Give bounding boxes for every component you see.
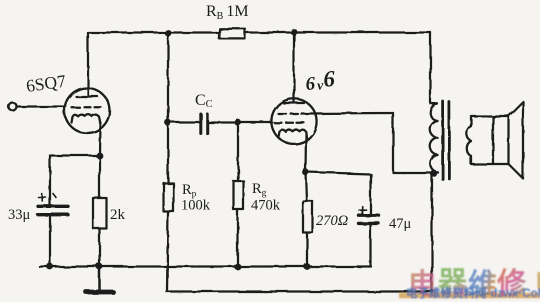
node R2 / ground rail: [96, 263, 103, 270]
wire: V2 screen lead: [310, 112, 394, 115]
node Rg / ground rail: [234, 263, 241, 270]
wire: lower B+ rail: [167, 290, 433, 292]
node top rail / V2 plate: [291, 29, 298, 36]
wire: C1 bottom lead: [49, 217, 51, 267]
svg-text:47μ: 47μ: [389, 216, 412, 232]
watermark: [399, 267, 540, 301]
resistor R4 Rg body: [234, 181, 244, 210]
resistor R5 270ohm body: [303, 201, 313, 233]
svg-text:33μ: 33μ: [8, 207, 31, 223]
wire: V1 cathode lead: [98, 121, 101, 156]
wire: input to grid: [17, 105, 66, 107]
resistor RB1 body: [219, 29, 245, 39]
node primary bottom: [430, 170, 437, 177]
input terminal: [9, 103, 17, 111]
wire: 6V6 plate drop: [293, 32, 295, 103]
svg-text:100k: 100k: [181, 198, 211, 214]
tube V2 cathode: [279, 130, 307, 138]
wire: rail corner down to transformer primary: [429, 33, 431, 104]
svg-text:2k: 2k: [110, 207, 126, 223]
capacitor C3 47u plates: [359, 213, 379, 216]
svg-text:RB1M: RB1M: [206, 3, 249, 22]
wire: C3 top lead: [369, 174, 371, 214]
wire: primary bottom to lower rail: [431, 174, 433, 292]
wire: ground rail: [40, 265, 372, 267]
wire: C1 top lead: [49, 156, 51, 205]
wire: Rp top lead: [167, 123, 169, 184]
wire: rail to Cc junction: [167, 33, 169, 123]
capacitor C2 Cc plates: [199, 114, 202, 134]
wire: grid wire to V2: [238, 121, 272, 123]
tube V1 6SQ7 envelope: [65, 88, 110, 133]
wire: Rg bottom lead: [236, 210, 238, 267]
node top rail / Cc branch: [165, 30, 172, 37]
speaker LS1 body: [471, 116, 509, 164]
speaker LS1 voice coil bumps: [467, 126, 471, 141]
wire: Rg top lead: [237, 123, 239, 182]
resistor R3 Rp body: [164, 183, 174, 212]
wire: Cc right lead: [209, 121, 238, 123]
ground: [98, 267, 101, 290]
tube V2 grid dashes: [275, 122, 305, 124]
capacitor C1 33u plates: [38, 205, 68, 208]
wire: V2 cathode lead: [304, 134, 307, 172]
tube V1 grid dashes: [72, 106, 102, 108]
tube V2 screen dashes: [278, 112, 310, 114]
wire: C3 branch top: [306, 172, 371, 174]
capacitor C3 polarity plus: [359, 206, 367, 213]
wire: R2 top lead: [98, 156, 100, 199]
wire: Rp bottom lead to B+ return: [167, 212, 168, 292]
wire: R5 bottom lead: [306, 233, 308, 267]
svg-text:电子维修资料网·dzwx·CoM: 电子维修资料网·dzwx·CoM: [406, 286, 540, 300]
node Cc right / V2 grid: [235, 119, 242, 126]
wire: Cc left lead: [168, 121, 199, 123]
node V2 cathode: [302, 169, 309, 176]
node V1 cathode: [96, 152, 103, 159]
node Cc left: [165, 119, 172, 126]
speaker LS1 cone: [509, 102, 524, 179]
tube V2 plate bar: [284, 102, 305, 104]
tube V1 cathode: [72, 115, 101, 124]
node C1 / ground rail: [47, 263, 54, 270]
node R5 / ground rail: [304, 263, 311, 270]
transformer T1 core: [441, 101, 444, 179]
wire: R5 top lead: [306, 172, 307, 201]
wire: R2 bottom lead: [98, 229, 100, 267]
svg-text:470k: 470k: [251, 198, 281, 214]
capacitor C1 polarity plus: [39, 194, 57, 202]
resistor R2 2k body: [93, 198, 107, 229]
svg-text:270Ω: 270Ω: [316, 213, 348, 229]
wire: 6SQ7 plate drop: [87, 33, 89, 97]
tube V1 plate bar: [76, 95, 98, 97]
wire: top B+ rail: [88, 31, 431, 33]
transformer T1 primary: [431, 102, 438, 105]
wire: cathode node horizontal: [50, 154, 100, 156]
tube V2 6V6 envelope: [271, 99, 316, 144]
wire: C3 bottom lead: [369, 225, 371, 267]
